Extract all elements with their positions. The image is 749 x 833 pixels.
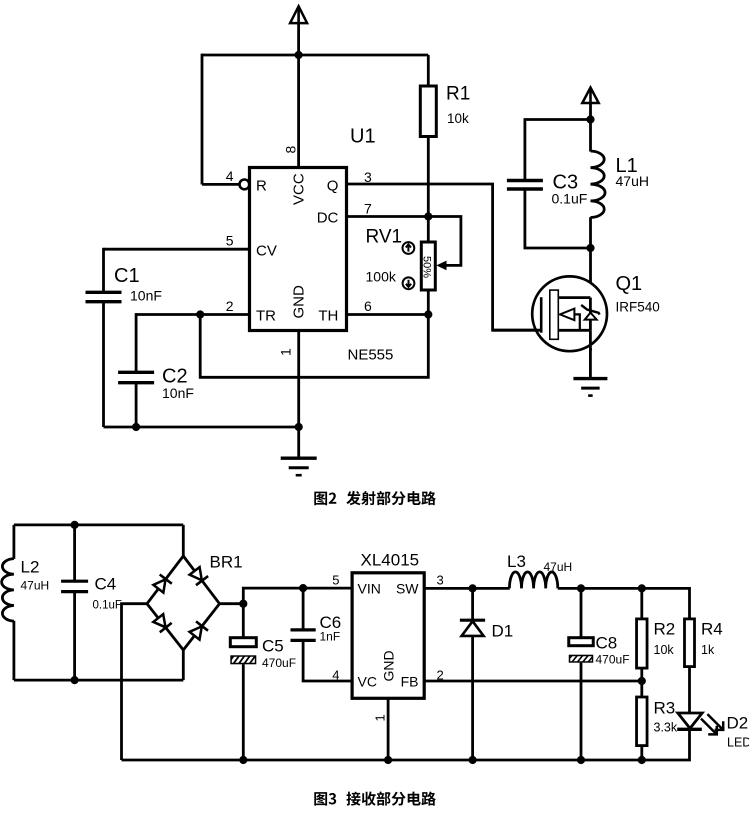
svg-text:IRF540: IRF540 <box>616 300 660 315</box>
svg-text:3.3k: 3.3k <box>654 721 678 735</box>
ground (output stage) <box>573 379 607 396</box>
label C1 value 10nF <box>130 288 162 304</box>
wire R3 to bottom rail <box>640 746 643 760</box>
label L1 <box>616 155 638 177</box>
wire GND pin lead (XL4015) <box>387 698 390 760</box>
label RV1 50% <box>420 256 432 278</box>
wire C6 top lead <box>302 588 305 630</box>
label D2 <box>727 714 749 733</box>
wire R2 top lead <box>640 588 643 619</box>
caption 图3 接收部分电路 <box>314 791 436 805</box>
wire C8 to bottom rail <box>580 663 583 760</box>
svg-text:0.1uF: 0.1uF <box>93 600 122 612</box>
pin number 4 (XL4015) <box>332 667 339 682</box>
node C8 bottom junction <box>577 756 585 764</box>
svg-text:C5: C5 <box>262 637 284 656</box>
wire D1 cathode lead <box>471 588 474 620</box>
node top-rail/VCC junction <box>295 51 303 59</box>
svg-text:10k: 10k <box>654 643 675 657</box>
resistor R1 <box>420 86 436 137</box>
label RV1 <box>366 227 403 248</box>
label R2 value 10k <box>654 643 675 657</box>
label L2 <box>21 558 40 577</box>
svg-text:1: 1 <box>373 714 388 721</box>
node TH junction <box>424 310 432 318</box>
wire C6 to VC pin <box>303 640 352 681</box>
svg-text:5: 5 <box>332 573 339 588</box>
svg-text:R4: R4 <box>701 620 723 639</box>
label D2 value LED <box>727 736 749 750</box>
node C4 top junction <box>71 521 79 529</box>
wire pin 6 TH <box>347 313 429 316</box>
label C5 value 470uF <box>262 656 296 670</box>
RV1 increase arrow icon <box>403 242 415 254</box>
wire C5 to bottom rail <box>242 664 245 760</box>
svg-text:6: 6 <box>364 298 372 314</box>
svg-text:7: 7 <box>364 201 372 217</box>
svg-text:L2: L2 <box>21 558 40 577</box>
svg-text:1nF: 1nF <box>320 630 341 644</box>
pin name GND (XL4015) <box>381 650 397 681</box>
label Q1 value IRF540 <box>616 300 660 315</box>
wire C3 top branch <box>525 120 591 181</box>
node GND rail junction <box>295 423 303 431</box>
label C8 value 470uF <box>596 653 630 667</box>
pin name DC <box>317 210 339 227</box>
label XL4015 <box>361 551 420 570</box>
label Q1 <box>616 273 643 295</box>
wire C4 bottom lead <box>73 592 76 681</box>
pin number 1 <box>278 348 294 356</box>
wire bridge minus branch <box>122 604 148 760</box>
svg-text:SW: SW <box>396 581 419 597</box>
LED D2 <box>677 713 702 729</box>
node DC junction <box>424 212 432 220</box>
svg-text:R1: R1 <box>446 84 470 105</box>
svg-text:47uH: 47uH <box>544 560 573 574</box>
wire top rail (receiver) <box>14 524 183 527</box>
pin number 8 <box>283 146 299 154</box>
svg-text:4: 4 <box>332 667 339 682</box>
label C5 <box>262 637 284 656</box>
svg-text:Q: Q <box>327 177 339 194</box>
svg-text:LED: LED <box>727 736 749 750</box>
label L1 value 47uH <box>616 173 649 189</box>
svg-text:TR: TR <box>256 308 276 325</box>
label NE555 <box>348 347 394 364</box>
wire GND to ground <box>297 427 300 459</box>
node GND bottom junction (XL4015) <box>384 756 392 764</box>
label R3 value 3.3k <box>654 721 678 735</box>
svg-text:VC: VC <box>358 674 377 690</box>
wire R2 bottom lead <box>640 668 643 681</box>
label BR1 <box>210 553 243 572</box>
label C2 value 10nF <box>162 385 194 401</box>
svg-text:470uF: 470uF <box>262 656 296 670</box>
svg-text:47uH: 47uH <box>21 579 50 593</box>
wire pin 1 GND lead <box>297 331 300 428</box>
label R1 value 10k <box>447 111 469 126</box>
svg-text:CV: CV <box>256 242 277 259</box>
capacitor C4 <box>61 581 88 591</box>
node C6 top junction <box>299 584 307 592</box>
label C8 <box>596 634 618 653</box>
node R3 bottom junction <box>638 756 646 764</box>
wire bridge bottom lead <box>182 650 185 680</box>
wire bottom rail <box>104 426 299 429</box>
pin number 5 (XL4015) <box>332 573 339 588</box>
capacitor C8 <box>563 638 607 663</box>
svg-text:GND: GND <box>291 285 308 319</box>
bridge rectifier BR1 diamond <box>147 556 220 650</box>
label D1 <box>492 622 514 641</box>
svg-text:C4: C4 <box>95 575 117 594</box>
svg-text:RV1: RV1 <box>366 227 403 248</box>
label C2 <box>162 366 188 388</box>
node FB junction <box>638 677 646 685</box>
node C8 junction <box>577 584 585 592</box>
pin number 1 (XL4015) <box>373 714 388 721</box>
wire C2 to bottom rail <box>135 383 138 427</box>
caption 图2 发射部分电路 <box>314 491 436 505</box>
svg-text:D1: D1 <box>492 622 514 641</box>
wire bottom rail (LC tank) <box>14 679 183 682</box>
wire TR to C2 <box>135 313 138 372</box>
BR1 diode bottom-left <box>153 614 171 632</box>
wire pin 2 TR <box>136 313 249 316</box>
svg-text:10nF: 10nF <box>130 288 162 304</box>
svg-text:8: 8 <box>283 146 299 154</box>
node TR junction <box>196 310 204 318</box>
wire pin 7 DC <box>347 215 429 218</box>
node C2 bottom junction <box>132 423 140 431</box>
pin name TH <box>318 308 338 325</box>
transistor Q1 <box>493 276 607 351</box>
wire C8 top lead <box>580 588 583 637</box>
svg-text:Q1: Q1 <box>616 273 643 295</box>
RV1 decrease arrow icon <box>403 277 415 289</box>
svg-text:10k: 10k <box>447 111 469 126</box>
pin name SW <box>396 581 419 597</box>
op-amp U1 NE555 body <box>250 168 347 331</box>
diode D1 <box>460 620 485 636</box>
svg-text:TH: TH <box>318 308 338 325</box>
wire pin 5 CV <box>104 248 250 251</box>
power VCC symbol (transmitter) <box>290 6 307 23</box>
svg-text:4: 4 <box>226 168 234 184</box>
wire R3 top lead <box>640 681 643 698</box>
wire bridge top lead <box>182 525 185 557</box>
svg-text:R3: R3 <box>654 699 676 718</box>
wire top rail <box>202 54 428 57</box>
pin name R <box>256 177 267 194</box>
svg-text:R2: R2 <box>654 620 676 639</box>
wire D2 to bottom rail <box>122 729 690 760</box>
node bridge output junction <box>239 600 247 608</box>
power VCC symbol (output stage) <box>582 88 598 104</box>
label C3 <box>553 172 579 194</box>
node L1 bottom junction <box>586 244 594 252</box>
op-amp U2 XL4015 body <box>352 573 424 699</box>
wire pin 4 R <box>202 183 240 186</box>
node R2 top junction <box>638 584 646 592</box>
inductor L2 <box>2 525 14 680</box>
label C6 value 1nF <box>320 630 341 644</box>
pin number 7 <box>364 201 372 217</box>
svg-text:VIN: VIN <box>358 581 381 597</box>
wire VCC arrow to top rail <box>297 23 300 55</box>
wire TH-TR tie <box>200 315 428 378</box>
label R2 <box>654 620 676 639</box>
wire SW output <box>424 587 510 590</box>
wire CV to C1 <box>102 248 105 293</box>
pin number 6 <box>364 298 372 314</box>
svg-text:5: 5 <box>226 233 234 249</box>
svg-text:3: 3 <box>437 573 444 588</box>
pin number 3 (XL4015) <box>437 573 444 588</box>
pin name FB <box>401 674 419 690</box>
wire C3 bottom branch <box>525 189 591 248</box>
svg-text:DC: DC <box>317 210 339 227</box>
label R3 <box>654 699 676 718</box>
svg-text:FB: FB <box>401 674 419 690</box>
label L3 <box>507 552 526 571</box>
label R4 value 1k <box>701 643 715 657</box>
svg-text:U1: U1 <box>350 126 376 148</box>
capacitor C1 <box>86 292 122 301</box>
wire C4 top lead <box>73 525 76 582</box>
inductor L1 <box>591 120 606 249</box>
pin name CV <box>256 242 277 259</box>
resistor R3 <box>637 697 648 746</box>
wire top rail to R1 <box>427 55 430 87</box>
svg-text:NE555: NE555 <box>348 347 394 364</box>
pin number 5 <box>226 233 234 249</box>
resistor R4 <box>685 619 695 667</box>
wire D1 anode to bottom rail <box>471 636 474 760</box>
pin name GND <box>291 285 308 319</box>
svg-text:XL4015: XL4015 <box>361 551 420 570</box>
pin number 3 <box>364 169 372 185</box>
BR1 diode top-left <box>153 575 171 593</box>
svg-text:BR1: BR1 <box>210 553 243 572</box>
label C4 value 0.1uF <box>93 600 122 612</box>
capacitor C2 <box>118 372 154 382</box>
ground (transmitter) <box>281 458 317 475</box>
pin number 4 <box>226 168 234 184</box>
pin number 2 (XL4015) <box>437 667 444 682</box>
svg-text:47uH: 47uH <box>616 173 649 189</box>
node C4 bottom junction <box>71 676 79 684</box>
capacitor C6 <box>291 630 316 641</box>
node D1 bottom junction <box>469 756 477 764</box>
BR1 diode bottom-right <box>190 621 209 639</box>
label L2 value 47uH <box>21 579 50 593</box>
label C3 value 0.1uF <box>552 191 588 207</box>
wire VCC to L1 node <box>589 104 592 120</box>
label RV1 value 100k <box>366 269 397 285</box>
svg-text:50%: 50% <box>420 256 432 278</box>
label C6 <box>320 613 342 632</box>
node D1 junction <box>469 584 477 592</box>
svg-text:R: R <box>256 177 267 194</box>
potentiometer RV1 body <box>421 242 435 290</box>
wire DC node to RV1 <box>427 217 430 244</box>
svg-text:10nF: 10nF <box>162 385 194 401</box>
capacitor C5 <box>225 638 269 665</box>
svg-text:L3: L3 <box>507 552 526 571</box>
svg-text:C8: C8 <box>596 634 618 653</box>
capacitor C3 <box>507 181 543 190</box>
wire VIN feed <box>243 588 352 638</box>
pin name Q <box>327 177 339 194</box>
svg-text:0.1uF: 0.1uF <box>552 191 588 207</box>
wire L3 to output node <box>558 587 690 590</box>
wire RV1 to TH node <box>427 290 430 315</box>
wire R1 to DC node <box>427 137 430 217</box>
svg-text:2: 2 <box>226 298 234 314</box>
pin 4 inversion bubble <box>240 180 250 190</box>
wire pin 8 VCC lead <box>297 55 300 168</box>
pin name TR <box>256 308 276 325</box>
wire C1 to bottom rail <box>102 302 105 427</box>
svg-text:C1: C1 <box>114 265 140 287</box>
wire bridge plus output <box>220 602 244 605</box>
label U1 <box>350 126 376 148</box>
pin name VC <box>358 674 377 690</box>
node L1 top junction <box>586 115 594 123</box>
svg-text:GND: GND <box>381 650 397 681</box>
LED D2 emission arrows <box>701 714 723 734</box>
pin name VCC <box>291 173 308 205</box>
wire DC to RV1 wiper loop <box>428 217 461 266</box>
label R1 <box>446 84 470 105</box>
label C1 <box>114 265 140 287</box>
svg-text:1: 1 <box>278 348 294 356</box>
wire Q1 source to ground <box>589 348 592 379</box>
pin name VIN <box>358 581 381 597</box>
svg-text:D2: D2 <box>727 714 749 733</box>
wire FB sense <box>424 680 642 683</box>
label L3 value 47uH <box>544 560 573 574</box>
label C4 <box>95 575 117 594</box>
svg-text:470uF: 470uF <box>596 653 630 667</box>
node C5 bottom junction <box>239 756 247 764</box>
BR1 diode top-right <box>190 567 209 585</box>
wire L1 to Q1 drain <box>589 248 592 298</box>
label R4 <box>701 620 723 639</box>
wire R4 to D2 <box>688 667 691 713</box>
inductor L3 <box>509 572 557 589</box>
wire pin 3 Q to gate <box>347 184 540 330</box>
svg-text:100k: 100k <box>366 269 397 285</box>
potentiometer RV1 wiper arrow <box>436 261 446 271</box>
resistor R2 <box>637 619 648 668</box>
svg-text:1k: 1k <box>701 643 715 657</box>
pin number 2 <box>226 298 234 314</box>
wire R4 top lead <box>688 588 689 619</box>
svg-text:VCC: VCC <box>291 173 308 205</box>
wire left vertical to pin 4 <box>201 54 204 185</box>
